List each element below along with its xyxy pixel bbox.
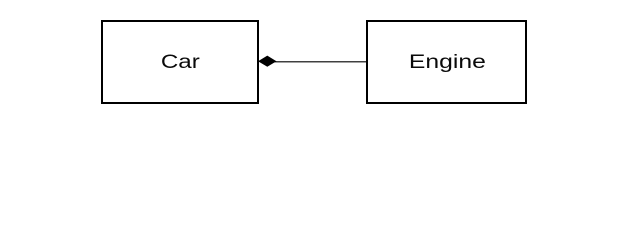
class box Engine [366,20,527,104]
wire: association line from diamond to Engine [274,61,366,63]
composition diamond at Car end [259,56,275,66]
class box Car [101,20,259,104]
